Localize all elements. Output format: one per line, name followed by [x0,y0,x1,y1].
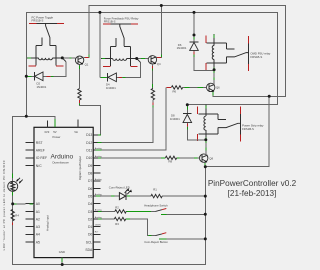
svg-text:AREF: AREF [36,149,45,153]
svg-text:Analog: Analog [95,178,103,181]
svg-text:Com-Reject Button: Com-Reject Button [144,240,168,244]
svg-text:A2: A2 [36,217,40,221]
svg-text:FRS1B-S: FRS1B-S [250,55,262,59]
svg-text:N/C: N/C [36,164,42,168]
svg-text:Q1: Q1 [85,62,89,66]
svg-text:FRS1B-S: FRS1B-S [104,19,116,23]
svg-text:[21-feb-2013]: [21-feb-2013] [228,189,277,198]
svg-text:R4: R4 [15,214,19,218]
svg-text:A3: A3 [36,225,40,229]
svg-text:Duemilanove: Duemilanove [53,161,70,165]
svg-text:D7: D7 [88,179,92,183]
svg-text:D1: D1 [88,225,92,229]
svg-text:3V3: 3V3 [44,130,49,134]
svg-text:Analog: Analog [95,216,103,219]
svg-text:A4: A4 [36,233,40,237]
svg-text:R1: R1 [153,188,157,192]
svg-text:Vin: Vin [74,130,78,134]
svg-text:D9: D9 [88,164,92,168]
svg-text:Digital Input/Output: Digital Input/Output [78,156,82,180]
svg-text:13kHz: 13kHz [95,225,101,227]
svg-text:Arduino: Arduino [51,153,74,160]
svg-text:D3: D3 [88,210,92,214]
svg-text:D10: D10 [86,156,92,160]
svg-text:Analog: Analog [95,193,103,196]
svg-text:PinPowerController v0.2: PinPowerController v0.2 [208,179,297,188]
svg-text:Q8: Q8 [209,156,213,160]
svg-text:D0: D0 [88,233,92,237]
svg-text:IO REF: IO REF [36,156,47,160]
svg-text:D13: D13 [86,133,92,137]
svg-text:1N4001: 1N4001 [106,86,116,90]
svg-text:A5: A5 [36,240,40,244]
svg-text:R3: R3 [115,222,119,226]
svg-text:1N4001: 1N4001 [177,46,187,50]
svg-text:D12: D12 [86,141,92,145]
svg-text:R2: R2 [115,206,119,210]
svg-text:Com-Reject LED: Com-Reject LED [109,186,130,190]
svg-text:GND: GND [59,250,65,254]
svg-text:1N4001: 1N4001 [170,117,180,121]
svg-text:D11: D11 [86,149,92,153]
svg-text:Q4: Q4 [157,62,161,66]
svg-text:D8: D8 [88,172,92,176]
svg-text:R8: R8 [169,160,173,164]
svg-text:FRS1B-S: FRS1B-S [242,127,254,131]
svg-text:LDR "looks" at PC power LED to: LDR "looks" at PC power LED to detect PC… [2,160,6,251]
svg-text:D2: D2 [88,217,92,221]
svg-text:1N4001: 1N4001 [37,85,47,89]
svg-text:Q6: Q6 [216,85,220,89]
svg-text:RST: RST [36,141,43,145]
svg-text:Headphone Switch: Headphone Switch [144,203,168,207]
svg-text:Rx•: Rx• [95,231,99,233]
svg-text:D4: D4 [88,202,92,206]
svg-text:5V: 5V [53,130,57,134]
svg-text:Analog Input: Analog Input [46,215,50,231]
svg-text:A0: A0 [36,202,40,206]
svg-text:D5: D5 [88,195,92,199]
svg-text:Power: Power [53,135,61,139]
svg-text:FRS1B-S: FRS1B-S [32,18,44,22]
svg-text:D6: D6 [88,187,92,191]
svg-text:Analog: Analog [95,208,103,211]
svg-text:SCL: SCL [86,240,93,244]
svg-text:A1: A1 [36,210,40,214]
svg-text:Analog: Analog [95,155,103,158]
svg-text:Analog: Analog [95,147,103,150]
svg-text:SDA: SDA [85,248,93,252]
svg-text:R6: R6 [173,90,177,94]
